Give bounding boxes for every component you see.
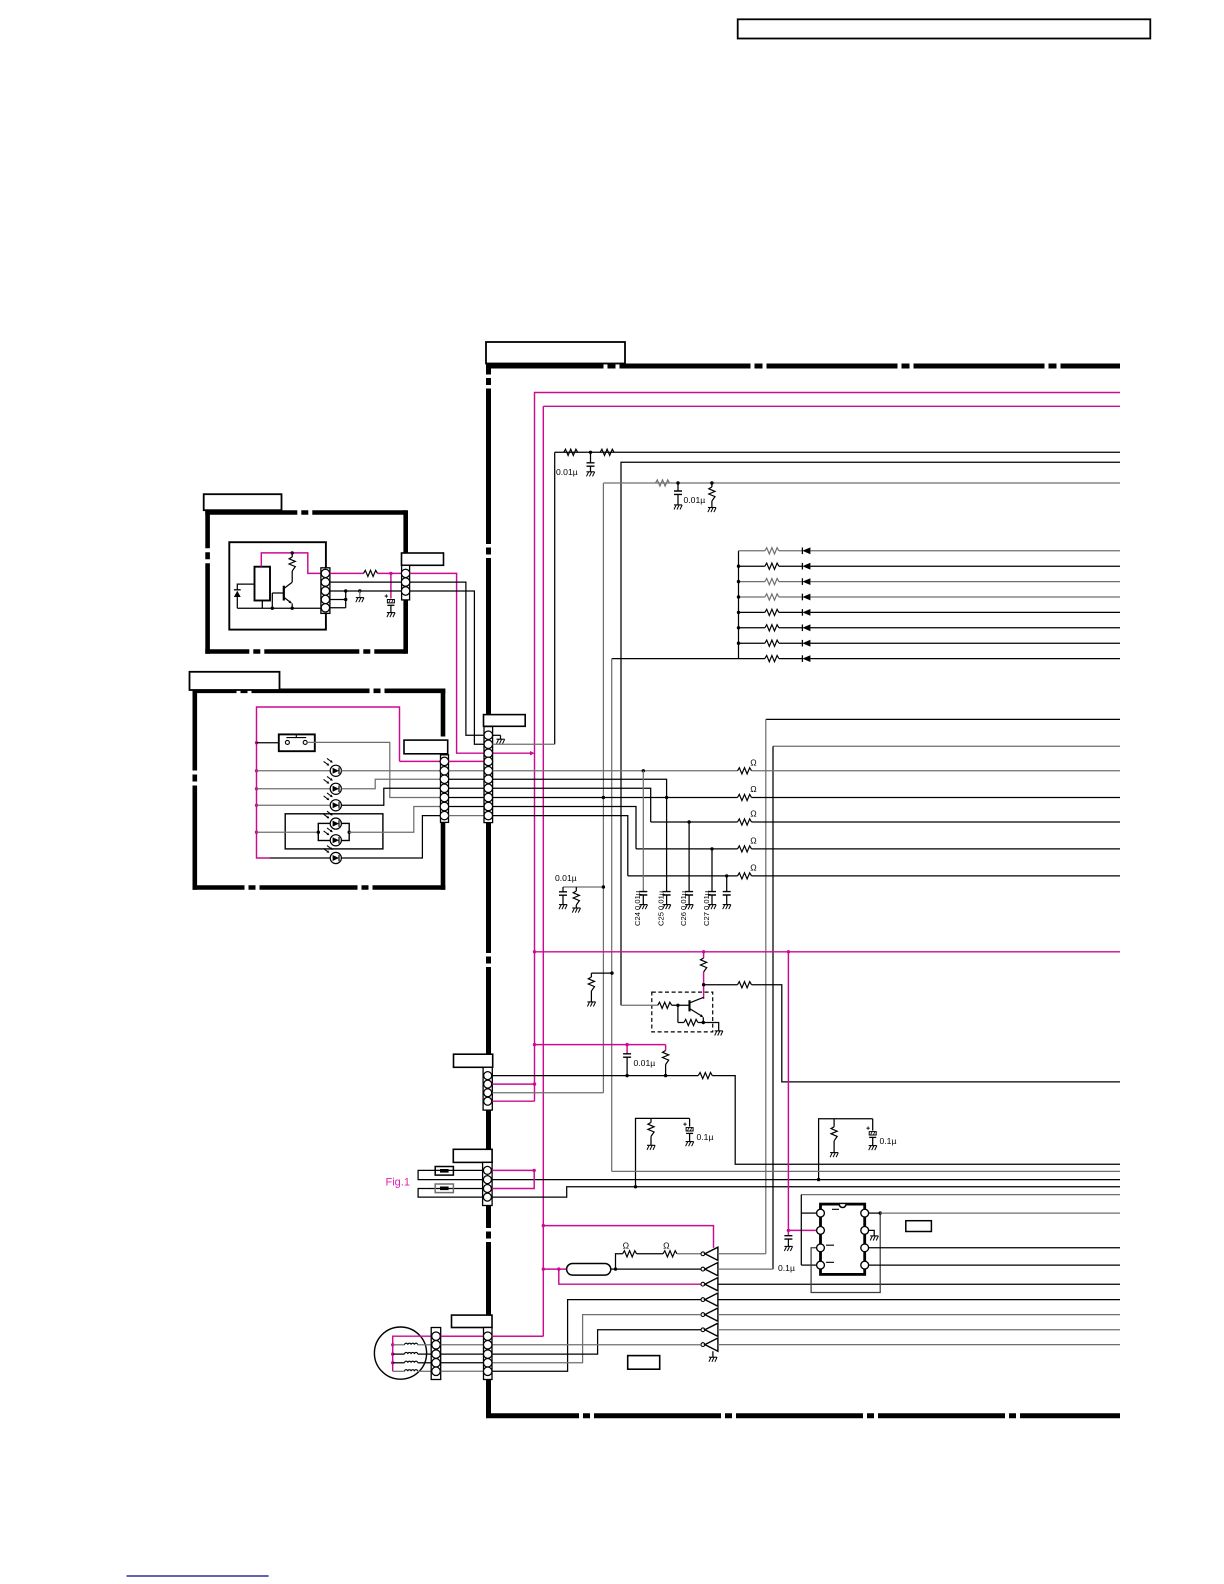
junction (710, 481, 713, 484)
junction (702, 983, 705, 986)
capacitor 0.01u (row1) (590, 452, 592, 463)
wire: pins L1-L4 tie (801, 1212, 816, 1214)
title box (empty, top right) (738, 19, 1151, 38)
wire: LED4/5 common (257, 831, 319, 833)
bus from diode row 8 down (611, 659, 613, 1172)
wire: filter row 2 (621, 462, 1120, 1005)
wire: ohm row 1 (493, 770, 738, 772)
resistor (row3) (656, 480, 670, 486)
LED6 (270, 857, 330, 859)
resistor (diode row 5) (765, 609, 779, 615)
svg-text:0.01µ: 0.01µ (684, 495, 706, 505)
relay unit label box 2 (connector label) (402, 553, 444, 565)
svg-text:Ω: Ω (750, 862, 757, 872)
resistor (diode row 7) (765, 640, 779, 646)
wire: rows between motor connectors (441, 1335, 484, 1337)
connector CN fig1-lower (483, 1162, 493, 1205)
wire: motor row to buffer6 (492, 1330, 701, 1354)
resistor (diode row 3) (765, 579, 779, 585)
RC pair 2 (0.1u) (819, 1119, 873, 1180)
wire: emitter to ground (703, 1023, 718, 1031)
capacitor 0.01u (562, 887, 564, 892)
wire: pin R2 to ground (869, 1230, 875, 1236)
ground (pin1) (500, 735, 502, 739)
LED group inner frame (318, 823, 349, 840)
main board border (top edge) (489, 364, 1121, 369)
wire: panel row6 step to ohm row 2 (493, 779, 667, 797)
buffer U2 (701, 1252, 705, 1256)
RC pair 1 (0.1u) (636, 1118, 690, 1186)
wire: buffer1 right to bus A (718, 1253, 766, 1255)
diode (row 5) (801, 609, 803, 616)
wire: magenta power row (535, 951, 1121, 953)
capacitor C (electrolytic to ground) (390, 573, 392, 598)
resistor (series) (738, 982, 752, 988)
wire: up to resistor row (616, 1254, 623, 1269)
resistor (base) (658, 1002, 672, 1008)
wire: resonator out (611, 1268, 616, 1270)
resistor (series row) (698, 1073, 712, 1079)
resistor to ground (row3) (711, 483, 713, 487)
wire: magenta to buffer3 input (559, 1269, 701, 1284)
ferrite bead 2 (435, 1184, 453, 1193)
resonator X1 (567, 1264, 611, 1276)
diode (row 6) (801, 625, 803, 632)
wire: bend down to row (752, 985, 1121, 1082)
wire: row2 to CN2 (330, 581, 402, 583)
svg-text:0.01µ: 0.01µ (555, 873, 577, 883)
diode (row 8) (801, 655, 803, 662)
motor connector label box (452, 1315, 493, 1327)
wire: loop rows 3-4 (418, 1189, 492, 1198)
IC label box (906, 1221, 932, 1232)
resistor (clock row b) (663, 1251, 677, 1257)
wire: diode row 3 (739, 581, 765, 583)
panel connector label box (404, 740, 448, 754)
connector CN motor-2 (484, 1328, 493, 1380)
wire: LED1 out (342, 770, 441, 772)
wire: magenta motor feed (393, 1336, 544, 1371)
transistor Q1 (283, 586, 285, 601)
IC pin (817, 1227, 825, 1235)
connector CN relay (edge) (402, 565, 410, 600)
svg-text:Ω: Ω (623, 1240, 630, 1250)
wire: magenta to pin L2 (788, 1229, 816, 1231)
wire: ohm row 5 (628, 875, 738, 877)
wire: row1 down to connector pin2 (554, 452, 556, 744)
ground (buffer 7) (712, 1351, 714, 1357)
wire: pin L3 loop (811, 1213, 880, 1292)
wire: diode row 5 (739, 611, 765, 613)
wire: diode row 1 (739, 550, 765, 552)
buffer U5 (701, 1298, 705, 1302)
svg-text:C24 0.01µ: C24 0.01µ (633, 890, 642, 926)
wire: row3 (ground row) (330, 590, 402, 592)
diode (row 1) (801, 548, 803, 555)
wire: magenta to resonator (543, 1268, 566, 1270)
LED3 (257, 804, 331, 806)
svg-text:0.1µ: 0.1µ (880, 1136, 897, 1146)
motor coil (393, 1344, 405, 1346)
svg-text:Ω: Ω (750, 757, 757, 767)
resistor (base-emitter) (677, 1005, 679, 1022)
svg-text:C25 0.01µ: C25 0.01µ (656, 890, 665, 926)
connector CN panel (441, 755, 449, 823)
svg-text:Ω: Ω (750, 835, 757, 845)
resistor (clock row a) (623, 1251, 637, 1257)
bus from row3 down (602, 483, 604, 798)
main board border (left edge) (486, 364, 491, 1416)
wire: panel row9 step to ohm row 4 (493, 807, 636, 849)
buffer U4 (701, 1282, 705, 1286)
capacitor C27 (711, 849, 713, 892)
svg-text:C26 0.01µ: C26 0.01µ (679, 890, 688, 926)
wire: relay row3 to main connector (410, 591, 484, 744)
capacitor C25 (666, 798, 668, 892)
connector CN main (484, 727, 493, 823)
wire: row 1171 (612, 1170, 1120, 1172)
capacitor C26 (688, 822, 690, 892)
wire: pin3 to bus (492, 1092, 603, 1094)
wire: panel row7 step to ohm row 3 (493, 788, 651, 822)
diode (row 4) (801, 594, 803, 601)
resistor (collector pull-up) (703, 952, 705, 958)
wire: magenta supply row B (543, 405, 1120, 407)
LED2 (257, 788, 331, 790)
wire: magenta from relay unit to main bus arrow (410, 573, 531, 753)
wire: diode row 6 (739, 627, 765, 629)
buffer U6 (701, 1313, 705, 1317)
wire: panel rows to main connector (449, 760, 485, 762)
wire: magenta buffer supply (543, 1226, 713, 1248)
LED group outer frame (285, 814, 383, 849)
ground (row3) (359, 591, 361, 598)
IC U1 body (821, 1204, 865, 1274)
wire: emitter rail (237, 607, 321, 609)
fig1-lower label box (453, 1149, 492, 1162)
wire: ohm row 4 (636, 848, 738, 850)
diode (row 3) (801, 578, 803, 585)
relay unit label box (204, 494, 282, 510)
wire: base (272, 592, 284, 594)
label box (empty, near buffers) (628, 1356, 660, 1370)
relay inner case (229, 542, 326, 629)
svg-text:0.1µ: 0.1µ (697, 1132, 714, 1142)
diode array bus (738, 551, 740, 659)
relay unit border (205, 510, 405, 515)
wire: LED6 out (342, 816, 441, 858)
wire: switch output (307, 742, 440, 797)
wire: to row at 1082 (704, 984, 738, 986)
wire: magenta tap row (535, 1044, 666, 1046)
capacitor C24 (642, 771, 644, 892)
wire: rows 4-5 tie (345, 591, 347, 608)
resistor (diode row 8) (765, 656, 779, 662)
wire: relay row2 to main connector (410, 582, 484, 735)
resistor (diode row 6) (765, 625, 779, 631)
wire: magenta row to bus B corner (492, 1335, 543, 1337)
transistor Q2 body (688, 1000, 690, 1011)
resistor (row1 a) (564, 449, 578, 455)
wire: motor row to buffer5 (492, 1315, 701, 1363)
wire: magenta bus to IC (787, 952, 789, 1231)
wire: row B (773, 745, 1120, 747)
motor coil (393, 1353, 405, 1355)
resistor (diode row 4) (765, 594, 779, 600)
resistor (bridge) (665, 1045, 667, 1051)
wire: buffer2 right to bus B (718, 1268, 773, 1270)
wire: buffer7 out (718, 1344, 1120, 1346)
capacitor 0.1u (IC supply) (787, 1230, 789, 1235)
wire: magenta pin4 (492, 1100, 534, 1102)
wire: row 1187 (jog from fig1-lower pin4) (492, 1187, 1120, 1197)
wire: pin R3 out (869, 1247, 1120, 1249)
wire: row 1180 (492, 1179, 1120, 1181)
wire: bus tap RC (563, 886, 603, 888)
diode (row 2) (801, 563, 803, 570)
relay coil (255, 567, 271, 601)
capacitor C28 (726, 876, 728, 892)
fig1-upper label box (454, 1054, 493, 1067)
resistor (diode row 2) (765, 563, 779, 569)
wire: diode row 4 (739, 596, 765, 598)
motor coil (393, 1370, 405, 1372)
connector CN fig1-upper (483, 1067, 492, 1110)
IC pin (817, 1209, 825, 1217)
svg-text:Ω: Ω (750, 784, 757, 794)
connector CN motor-1 (431, 1328, 441, 1380)
svg-text:Ω: Ω (750, 809, 757, 819)
svg-text:0.1µ: 0.1µ (778, 1263, 795, 1273)
main connector label box (484, 715, 526, 727)
diode (row 7) (801, 640, 803, 647)
LED5 (330, 835, 341, 846)
wire: magenta row to CN (330, 572, 364, 574)
wire: magenta drop to pin3 (492, 1170, 534, 1188)
svg-text:C27 0.01µ: C27 0.01µ (702, 890, 711, 926)
reference underline (navy) (127, 1575, 269, 1577)
wire: pin2 row to bus (493, 743, 555, 745)
LED4 (330, 818, 341, 829)
bus: row A down to buffer 1 (765, 719, 767, 1253)
svg-text:0.01µ: 0.01µ (634, 1058, 656, 1068)
resistor R (series, magenta row) (364, 570, 378, 576)
wire: diode row 8 (612, 658, 765, 660)
wire: filter row 1 (555, 451, 1120, 453)
junction (291, 551, 294, 554)
LED1 (257, 770, 331, 772)
wire: coil return (271, 593, 273, 608)
wire: buffer6 out (718, 1329, 1120, 1331)
wire: magenta bus to panel connector (400, 760, 441, 762)
wire: magenta pin1 to bus (492, 1169, 534, 1171)
svg-text:0.01µ: 0.01µ (556, 467, 578, 477)
wire: LED3 out (342, 788, 441, 805)
wire: pin1 to ground (493, 734, 501, 736)
wire: pin R4 out (869, 1264, 1120, 1266)
wire: row A (766, 718, 1120, 720)
resistor (row1 b) (600, 449, 614, 455)
motor M1 (374, 1327, 426, 1379)
wire: bend down to 1164 row (712, 1076, 1120, 1165)
wire: magenta panel bus (257, 707, 400, 858)
resistor (diode row 1) (765, 548, 779, 554)
bus: row B down to buffer 2 (772, 746, 774, 1269)
wire: pin R1 out (869, 1212, 881, 1214)
wire: motor row to buffer4 (492, 1300, 701, 1372)
wire: panel row10 step to ohm row 5 (493, 816, 628, 876)
svg-text:Ω: Ω (663, 1240, 670, 1250)
wire: magenta bus B vertical (542, 406, 544, 1336)
wire: ohm row 3 (651, 821, 738, 823)
buffer U3 (701, 1267, 705, 1271)
wire: diode row 2 (739, 565, 765, 567)
wire: magenta supply row A (535, 393, 1121, 1102)
wire: base row (621, 1004, 658, 1006)
wire: filter row 3 (603, 482, 1120, 484)
IC pin marks (826, 1209, 839, 1262)
wire: magenta pin2 (492, 1083, 534, 1085)
buffer U8 (701, 1343, 705, 1347)
wire: LED2 out (342, 779, 441, 789)
junction (589, 451, 592, 454)
wire: magenta relay supply (261, 553, 321, 574)
capacitor 0.01u (row3) (677, 483, 679, 491)
connector CN relay (inner) (321, 568, 330, 614)
ferrite bead 1 (435, 1167, 453, 1176)
main board label box (486, 342, 625, 364)
transistor Q2 (dashed outline) (652, 992, 713, 1032)
IC pin (817, 1244, 825, 1252)
wire: loop rows 1-2 (418, 1170, 492, 1179)
resistor (575, 887, 577, 891)
resistor (relay base) (291, 553, 293, 557)
wire: ohm row 2 (493, 797, 738, 799)
IC pin (817, 1261, 825, 1269)
main board border (bottom edge) (486, 1413, 1120, 1418)
wire: buffer3 out (718, 1283, 1120, 1285)
wire: coil bottom lead (261, 601, 263, 609)
panel unit border (193, 688, 446, 693)
junction (magenta) (389, 572, 392, 575)
wire: buffer4 out (718, 1299, 1120, 1301)
wire: row from CN fig1-upper pin1 (493, 1075, 699, 1077)
wire: motor row to buffer7 (492, 1344, 701, 1346)
panel unit label box (190, 672, 280, 690)
junction (676, 481, 679, 484)
capacitor 0.01u (bridge) (626, 1045, 628, 1054)
switch SW1 (257, 742, 279, 744)
diode D1 (flyback) (234, 589, 241, 591)
wire: diode row 7 (739, 642, 765, 644)
wire: buffer5 out (718, 1314, 1120, 1316)
resistor to ground (base bleed) (591, 972, 612, 974)
buffer U7 (701, 1328, 705, 1332)
wire: row 1195 (801, 1194, 1120, 1196)
svg-text:Fig.1: Fig.1 (386, 1177, 410, 1189)
motor coil (393, 1362, 405, 1364)
